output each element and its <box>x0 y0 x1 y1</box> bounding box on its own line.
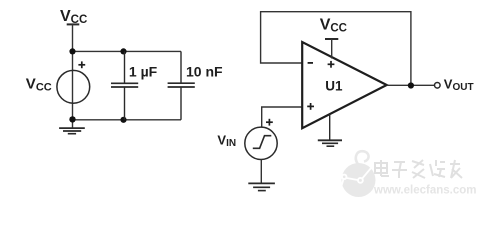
terminal VOUT (open circle) <box>435 83 441 89</box>
node: junction C1 bottom <box>120 117 126 123</box>
label − (inverting input) <box>308 62 313 64</box>
step waveform icon inside VIN <box>253 136 271 149</box>
node: junction C1 top <box>120 48 126 54</box>
svg-text:10 nF: 10 nF <box>186 63 223 79</box>
source VIN (circle) <box>245 127 277 159</box>
svg-text:1 µF: 1 µF <box>129 63 158 79</box>
svg-text:U1: U1 <box>325 78 343 93</box>
capacitor C2 10 nF <box>168 51 195 119</box>
label + (source polarity) <box>78 61 85 68</box>
wire: bottom rail <box>73 119 182 121</box>
label + (VIN polarity) <box>266 119 273 126</box>
ground (VIN) <box>248 183 275 190</box>
watermark: elecfans logo ball <box>340 151 376 197</box>
label + (positive supply) <box>328 61 335 68</box>
ground (left) <box>59 128 85 134</box>
power symbol VCC (left rail) <box>60 8 87 26</box>
node: junction VCC/top rail <box>69 48 75 54</box>
wire: feedback loop (output to inverting input) <box>261 12 411 86</box>
wire: left vertical (VCC bar to ground) <box>72 24 74 128</box>
ground (op-amp negative supply) <box>318 114 342 146</box>
capacitor C1 1 µF <box>111 51 138 119</box>
wire: VIN to non-inverting input <box>262 107 303 127</box>
power symbol VCC (op-amp supply) <box>320 16 347 58</box>
wire: VIN to ground <box>260 159 262 183</box>
voltage source VCC (circle) <box>57 70 90 103</box>
node: output junction <box>408 82 414 88</box>
label + (non-inverting input) <box>307 103 314 110</box>
wire: top rail <box>73 50 182 52</box>
op-amp U1 (triangle) <box>302 42 387 128</box>
svg-text:www.elecfans.com: www.elecfans.com <box>373 185 476 197</box>
node: junction ground <box>69 116 75 122</box>
watermark: chinese characters 电子发烧友 (drawn strokes) <box>375 160 462 178</box>
wire: output <box>387 84 435 86</box>
